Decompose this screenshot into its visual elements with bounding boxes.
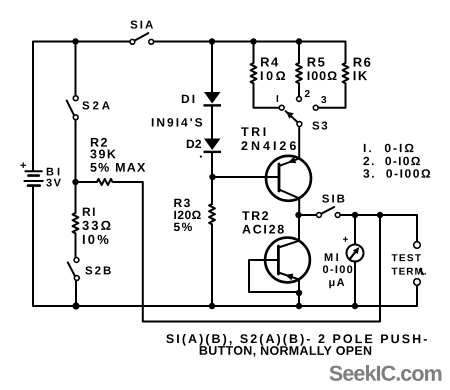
svg-text:2: 2 <box>305 89 311 100</box>
svg-text:I0%: I0% <box>82 232 111 247</box>
svg-text:I: I <box>276 94 279 105</box>
svg-text:33Ω: 33Ω <box>82 218 113 233</box>
svg-text:I. 0-IΩ: I. 0-IΩ <box>363 141 416 155</box>
svg-text:S3: S3 <box>312 121 329 133</box>
svg-text:TRI: TRI <box>241 125 269 139</box>
svg-text:DI: DI <box>181 92 197 106</box>
svg-text:SIB: SIB <box>322 194 347 206</box>
svg-text:3V: 3V <box>46 177 62 189</box>
svg-text:SIA: SIA <box>130 19 155 31</box>
svg-text:R4: R4 <box>260 55 280 70</box>
svg-text:TERM.: TERM. <box>391 267 427 278</box>
svg-text:3: 3 <box>321 95 327 106</box>
svg-text:TEST: TEST <box>391 253 422 264</box>
svg-text:0-I00: 0-I00 <box>322 264 354 276</box>
svg-text:3. 0-I00Ω: 3. 0-I00Ω <box>363 167 432 181</box>
svg-text:RI: RI <box>82 205 97 219</box>
svg-text:SeekIC.com: SeekIC.com <box>329 362 442 386</box>
svg-text:R5: R5 <box>307 55 327 70</box>
svg-text:TR2: TR2 <box>242 209 270 223</box>
svg-text:+: + <box>20 160 26 172</box>
svg-text:5% MAX: 5% MAX <box>90 161 147 175</box>
svg-text:BUTTON, NORMALLY OPEN: BUTTON, NORMALLY OPEN <box>199 344 372 358</box>
svg-text:2N4I26: 2N4I26 <box>241 139 299 153</box>
svg-text:IK: IK <box>353 68 369 83</box>
svg-text:S2A: S2A <box>82 100 113 112</box>
svg-text:S2B: S2B <box>85 265 113 277</box>
svg-text:MI: MI <box>324 252 341 264</box>
svg-text:IN9I4'S: IN9I4'S <box>151 115 205 129</box>
svg-text:ACI28: ACI28 <box>242 223 286 237</box>
svg-text:I0Ω: I0Ω <box>260 69 288 83</box>
svg-text:I00Ω: I00Ω <box>307 69 338 83</box>
svg-text:39K: 39K <box>90 147 117 161</box>
svg-text:μA: μA <box>328 277 346 289</box>
svg-text:+: + <box>342 235 348 246</box>
svg-text:5%: 5% <box>173 220 193 234</box>
svg-text:D2: D2 <box>186 137 202 151</box>
